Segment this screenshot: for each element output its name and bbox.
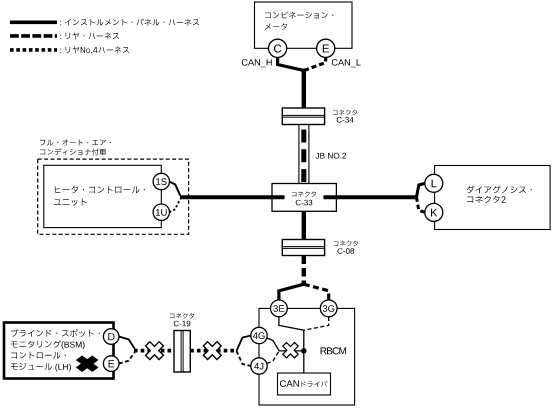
wire branch to pin 4J (thin dashed): [237, 351, 252, 366]
BSM label line4: [11, 363, 71, 372]
label full-auto air conditioner line1: [40, 139, 111, 145]
combination meter box: [255, 2, 353, 48]
label full-auto air conditioner line2: [40, 149, 106, 156]
wire pin 4J to internal junction (thin dashed): [267, 351, 279, 364]
wire junction to pin L (thick solid): [417, 183, 426, 197]
legend text 3: [60, 46, 129, 53]
diagnosis connector label line1: [467, 186, 532, 194]
pin C of combination meter: [269, 39, 287, 57]
wire branch to pin 3G (thick dashed): [304, 284, 329, 300]
wire CAN_H from pin C (thick solid): [278, 57, 303, 71]
combination meter label line2: [265, 23, 287, 30]
pin 4G of RBCM: [251, 327, 267, 343]
wire pin 1U to junction (thin dotted): [169, 199, 180, 212]
wire junction to pin K (thick dashed): [417, 197, 426, 212]
wire from heater control junction to C-33 (thick solid): [180, 195, 285, 199]
wire pin 4G to internal junction (thin solid): [267, 338, 301, 351]
combination meter label line1: [265, 12, 333, 19]
BSM label line1: [11, 329, 100, 337]
wire branch to pin 4G (thin solid): [237, 336, 252, 351]
abolished mark X on wire after C-19: [199, 337, 226, 364]
label CAN driver: [280, 380, 328, 387]
internal wire down to CAN driver: [303, 330, 305, 373]
BSM control module box (thick border): [4, 323, 114, 379]
JB NO.2 pass-through rails: [298, 125, 300, 184]
wire trunk: junction to connector C-34 (instrument panel harness): [302, 69, 306, 109]
label connector C-33 line1: [292, 191, 316, 196]
wire pin D to junction (thin solid): [119, 337, 135, 350]
wire from C-33 to diagnosis junction (thick solid): [324, 195, 418, 199]
wire pin E to junction (thin dashed): [119, 352, 135, 364]
heater control unit label line1: [55, 186, 145, 193]
label connector C-33 line2: [296, 200, 313, 206]
wire rear No.4 harness dotted: BSM junction to C-19: [134, 349, 174, 353]
label connector C-34 line1: [333, 110, 357, 115]
legend text 1: [60, 19, 199, 26]
diagnosis connector 2 box: [435, 166, 550, 230]
pin E of BSM module: [103, 356, 119, 372]
diagnosis connector label line2: [467, 196, 506, 203]
wire C-33 down to connector C-08 (thick solid): [302, 211, 306, 240]
label connector C-08 line2: [338, 248, 355, 254]
label CAN_L: [332, 59, 361, 67]
abolished mark X on wire before C-19: [141, 337, 168, 364]
wire pin 1S to junction (thin solid): [169, 182, 180, 196]
pin D of BSM module: [103, 329, 119, 345]
wire rear No.4 harness dotted: C-19 to RBCM branch: [190, 349, 237, 353]
dashed option box (full auto air conditioner): [38, 159, 189, 234]
legend dotted swatch: rear No.4 harness: [10, 48, 57, 52]
legend dashed swatch: rear harness: [10, 34, 57, 38]
connector C-33 box: [272, 184, 336, 212]
connector C-34 symbol: [282, 108, 324, 125]
BSM label line2: [11, 340, 85, 349]
wire CAN_L from pin E (thick dashed): [305, 57, 326, 71]
heater control unit label line2: [54, 198, 87, 205]
pin 1S of heater control unit: [153, 173, 169, 189]
abolished mark (filled X) inside BSM box: [71, 352, 104, 376]
BSM label line3: [11, 352, 66, 359]
pin 1U of heater control unit: [153, 204, 169, 220]
pin 3G of RBCM: [320, 300, 337, 317]
wire rear harness C-08 down to branch (thick dashed): [302, 256, 306, 286]
pin K of diagnosis connector: [425, 203, 443, 221]
label JB NO.2: [316, 153, 347, 159]
heater control unit box: [44, 165, 162, 227]
wire pin 3E to internal junction (thin solid): [279, 317, 304, 330]
wire rear harness dashed through JB NO.2: [301, 125, 306, 184]
RBCM box: [259, 308, 355, 405]
connector C-19 symbol: [174, 331, 190, 373]
label connector C-08 line1: [334, 241, 358, 246]
label CAN_H: [242, 59, 272, 67]
label connector C-34 line2: [337, 117, 354, 123]
label connector C-19 line1: [170, 313, 194, 318]
connector C-08 symbol: [282, 240, 324, 256]
junction node dot: [301, 348, 307, 354]
pin E of combination meter: [317, 39, 335, 57]
CAN driver box: [278, 373, 331, 395]
pin 3E of RBCM: [271, 300, 288, 317]
wire pin 3G to internal junction (thin dashed): [304, 317, 329, 330]
abolished mark X inside RBCM: [279, 339, 302, 362]
wire branch to pin 3E (thick solid): [279, 284, 304, 300]
legend text 2: [60, 32, 119, 39]
legend solid swatch: instrument panel harness: [10, 21, 57, 25]
pin 4J of RBCM: [251, 358, 267, 374]
label connector C-19 line2: [174, 321, 191, 327]
pin L of diagnosis connector: [425, 174, 443, 192]
label RBCM: [321, 347, 346, 354]
